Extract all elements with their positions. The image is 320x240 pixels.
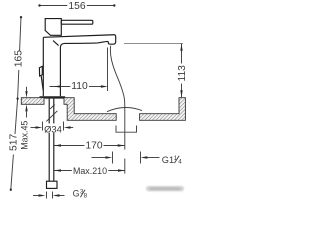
G1 1/4 callout — [92, 152, 183, 166]
pipe break slash long — [46, 111, 57, 122]
svg-text:G1: G1 — [162, 155, 174, 165]
dim 110 extension line — [107, 48, 109, 92]
basin arc — [107, 108, 142, 112]
svg-text:8: 8 — [84, 193, 88, 200]
watermark — [146, 186, 184, 191]
hose end box — [47, 181, 58, 188]
drain centerline lower segment — [124, 159, 126, 174]
counter middle piece with basin leg — [64, 98, 116, 121]
svg-text:110: 110 — [71, 81, 88, 92]
counter left piece — [21, 98, 44, 105]
dim diam 34 — [31, 122, 74, 135]
svg-text:4: 4 — [178, 159, 182, 166]
water stream curve — [110, 46, 124, 150]
svg-text:113: 113 — [177, 65, 188, 82]
dim 113 extension line — [124, 43, 183, 45]
svg-text:517: 517 — [8, 134, 19, 151]
basin right piece with wall — [140, 98, 186, 121]
dim G3/8 — [33, 188, 88, 199]
faucet base plate — [39, 96, 65, 98]
pop-up rod knob — [39, 66, 42, 76]
svg-text:156: 156 — [68, 1, 85, 12]
svg-text:165: 165 — [14, 50, 25, 67]
dim 170 — [54, 141, 124, 152]
dim 113 — [177, 44, 188, 98]
svg-text:Max.45: Max.45 — [20, 121, 30, 150]
dim 165 line — [14, 16, 25, 99]
dim 156 line — [38, 1, 115, 12]
svg-text:Ø34: Ø34 — [44, 123, 62, 134]
svg-text:Max.210: Max.210 — [73, 166, 107, 176]
faucet corner seam — [53, 41, 59, 46]
pipe break slash short — [50, 105, 55, 109]
drain tailpiece bracket — [116, 126, 137, 133]
faucet body left edge — [42, 37, 44, 96]
dim 110 — [50, 81, 108, 92]
dim Max.210 — [54, 166, 125, 176]
dim 517 line — [8, 97, 19, 190]
faucet handle block — [45, 19, 61, 36]
svg-text:170: 170 — [85, 141, 102, 152]
dim Max.45 — [20, 87, 30, 150]
pop-up rod — [41, 76, 43, 91]
supply pipe — [48, 99, 50, 182]
svg-text:G: G — [73, 188, 80, 198]
faucet lever — [61, 20, 93, 24]
faucet spout outline — [43, 35, 115, 97]
